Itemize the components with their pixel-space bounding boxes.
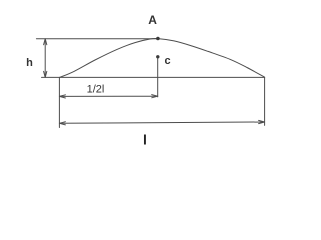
svg-text:1/2l: 1/2l: [87, 83, 105, 95]
l dimension line: [60, 122, 264, 123]
1/2l arrowhead left: [59, 95, 65, 98]
chord line: [42, 76, 265, 78]
left extension line: [58, 77, 60, 127]
point c dot: [156, 55, 159, 58]
arc (circular segment curve): [60, 38, 265, 77]
svg-text:A: A: [148, 13, 157, 27]
h dimension arrow line: [44, 39, 46, 77]
1/2l dimension line: [60, 95, 157, 97]
svg-text:h: h: [26, 57, 33, 69]
right extension line: [264, 77, 266, 125]
point A dot: [156, 37, 160, 41]
svg-text:c: c: [165, 55, 171, 67]
h arrowhead top: [44, 39, 47, 45]
l arrowhead right: [259, 120, 265, 123]
svg-text:l: l: [143, 131, 147, 147]
h arrowhead bottom: [44, 71, 47, 77]
vertical line below point c: [157, 59, 159, 97]
l arrowhead left: [59, 122, 65, 125]
top reference line: [36, 38, 157, 40]
1/2l arrowhead right: [152, 95, 158, 98]
